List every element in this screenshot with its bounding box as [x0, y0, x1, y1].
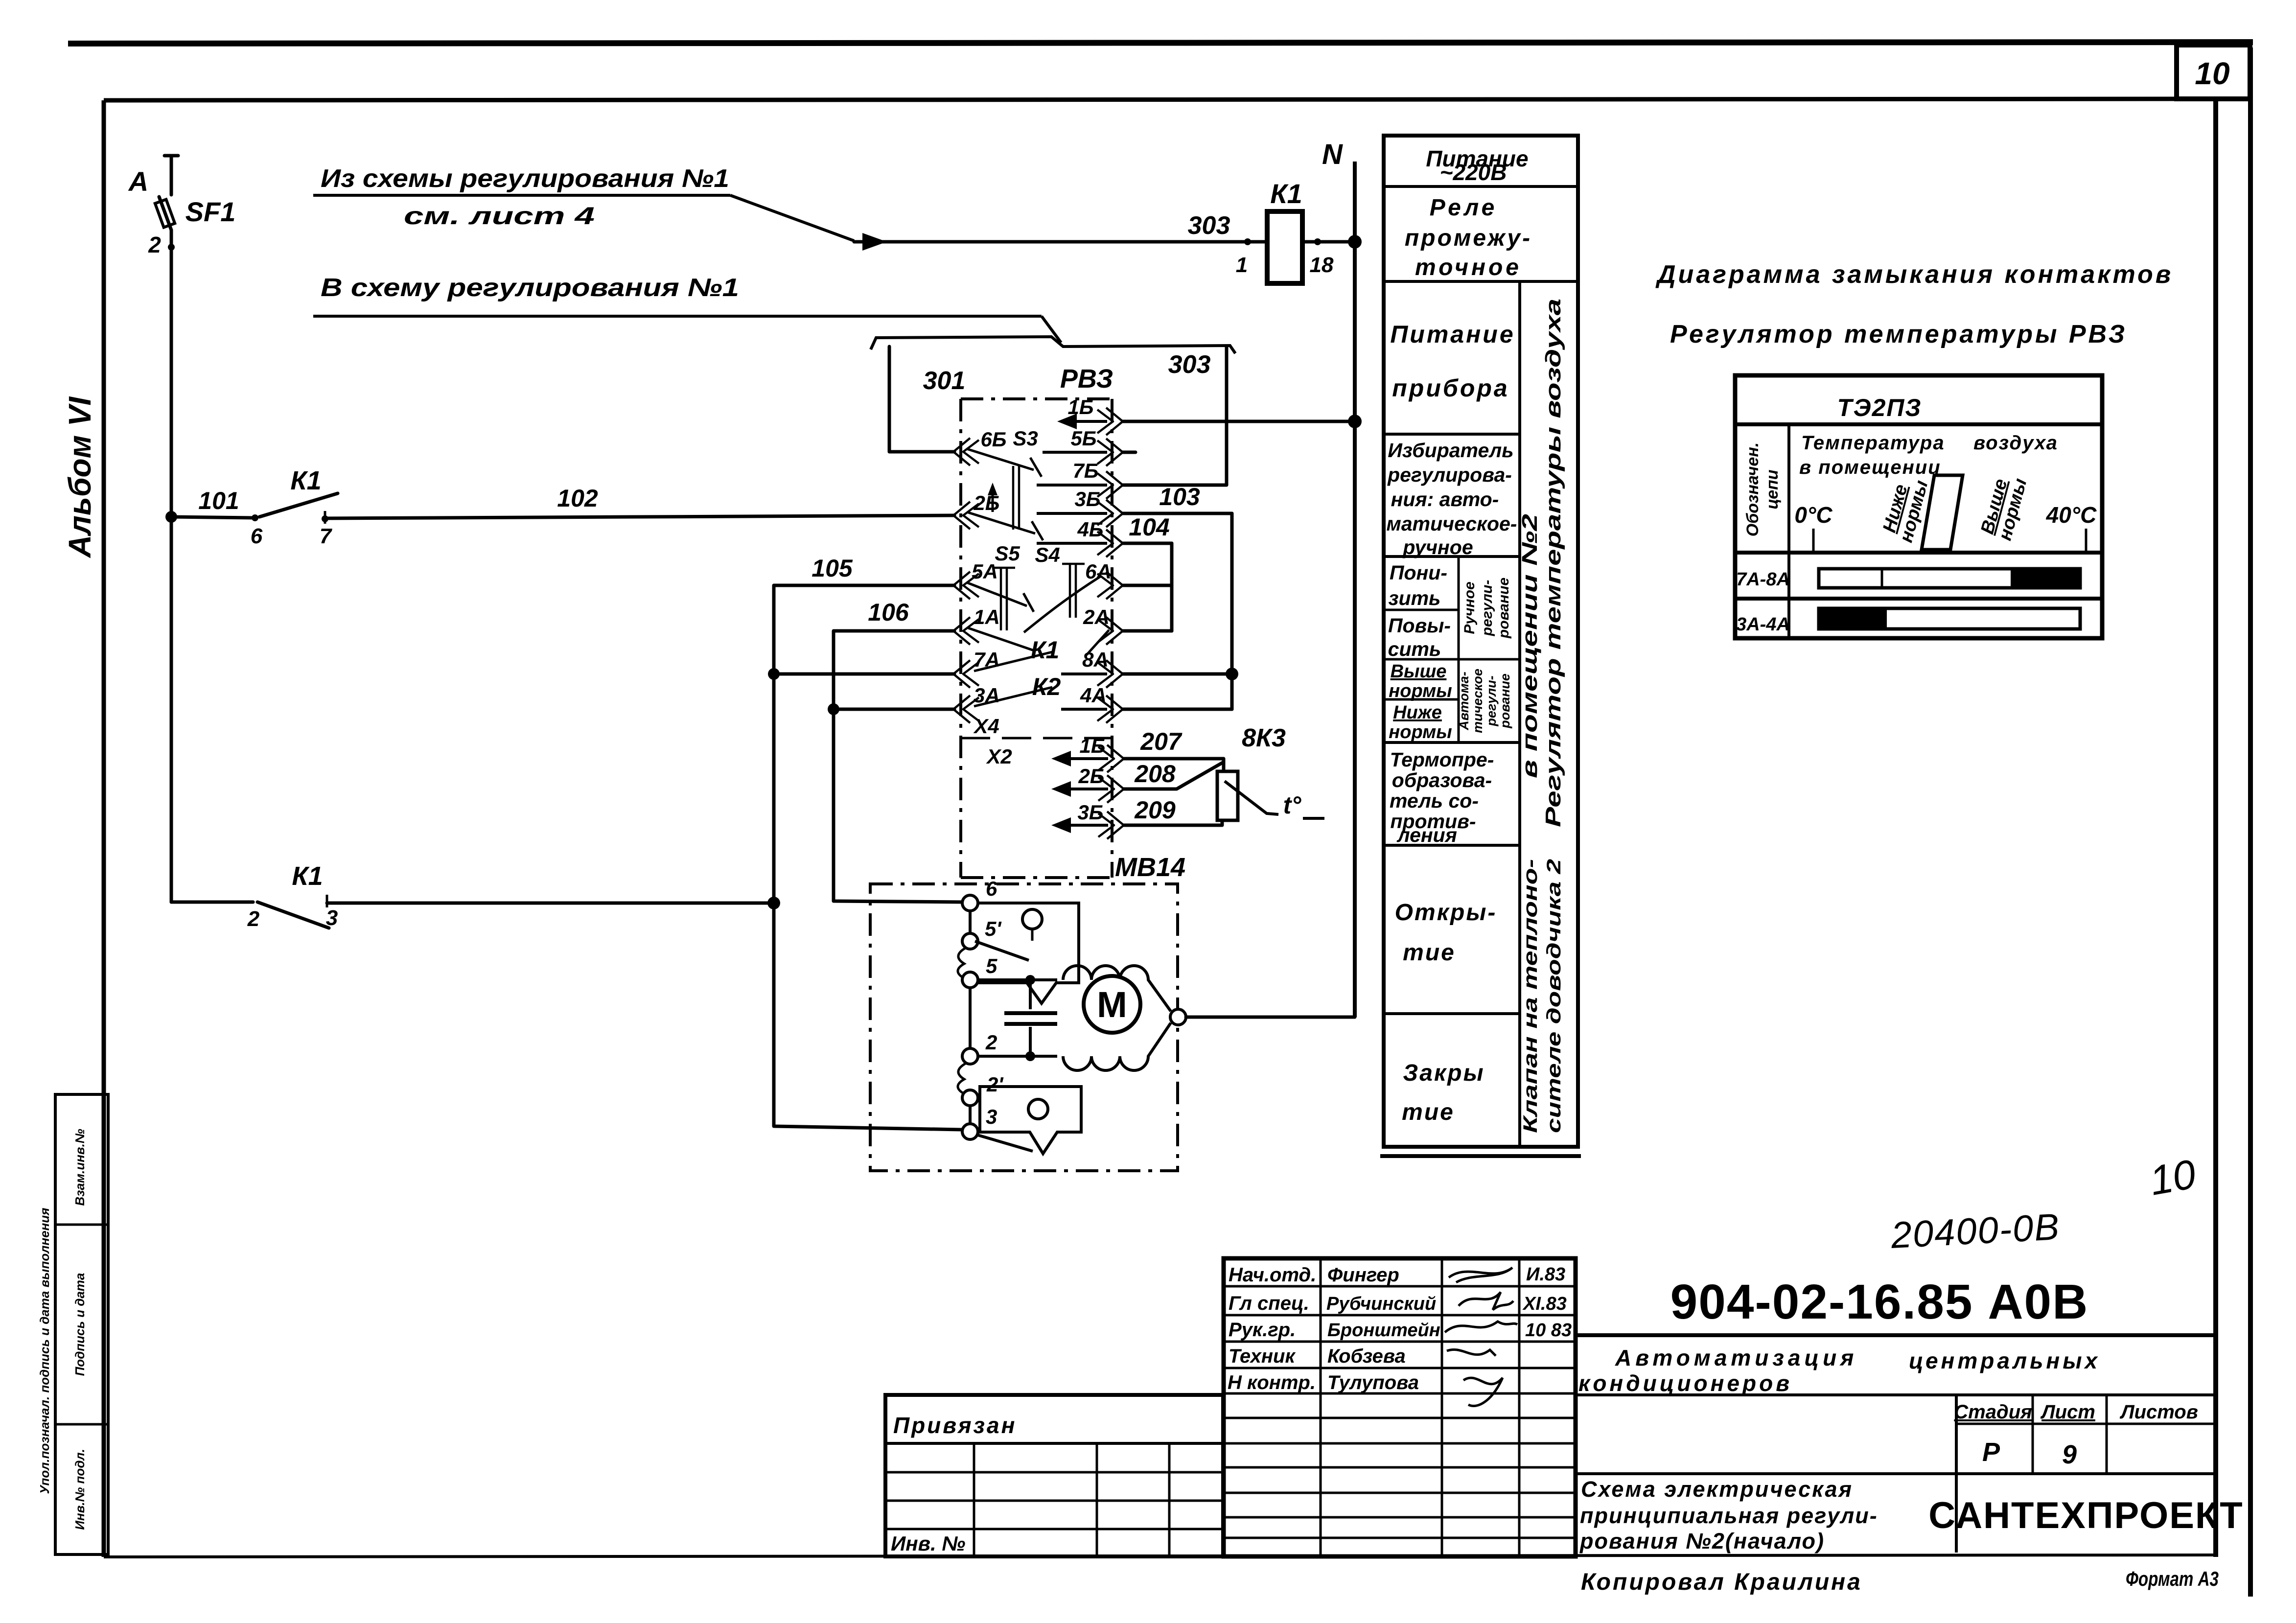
contact 3A (left): [953, 684, 1000, 723]
svg-text:5Б: 5Б: [1070, 427, 1096, 450]
svg-text:Пони-: Пони-: [1390, 561, 1447, 584]
junction N / K1 coil: [1348, 235, 1362, 249]
wire 208: [1124, 760, 1223, 789]
svg-text:303: 303: [1168, 350, 1211, 379]
wire 104: [1123, 513, 1172, 631]
svg-text:2: 2: [985, 1031, 997, 1054]
wire 103: [1123, 483, 1232, 709]
svg-text:904-02-16.85 А0В: 904-02-16.85 А0В: [1670, 1275, 2089, 1329]
bus N: [1322, 139, 1355, 1017]
svg-text:А: А: [128, 166, 148, 197]
svg-text:207: 207: [1140, 728, 1183, 755]
contact K1 pins 2-3 (lower branch): [171, 861, 338, 931]
svg-text:К1: К1: [292, 861, 323, 891]
svg-text:2А: 2А: [1083, 605, 1110, 628]
contact 2B (left): [953, 483, 1000, 529]
svg-text:Автома-: Автома-: [1457, 672, 1471, 731]
svg-text:рование: рование: [1496, 578, 1512, 639]
contact K1 blade (7A-8A): [974, 636, 1059, 671]
contact 3A-4A closure bar: [1818, 607, 2080, 630]
svg-text:Гл спец.: Гл спец.: [1229, 1293, 1309, 1314]
svg-text:ТЭ2ПЗ: ТЭ2ПЗ: [1837, 394, 1922, 421]
svg-text:4А: 4А: [1080, 684, 1107, 707]
svg-text:~220В: ~220В: [1440, 160, 1507, 185]
svg-text:Кобзева: Кобзева: [1327, 1345, 1406, 1367]
diagram title: [1655, 260, 2173, 348]
svg-text:5: 5: [986, 954, 997, 977]
svg-text:В схему регулирования №1: В схему регулирования №1: [321, 274, 739, 302]
node A (phase): [128, 166, 148, 197]
contact K2 blade (3A-4A): [974, 673, 1061, 706]
wire 209: [1124, 796, 1222, 825]
title block drawing title: [1579, 1477, 1878, 1553]
svg-text:регули-: регули-: [1484, 675, 1499, 726]
svg-text:Термопре-: Термопре-: [1390, 748, 1494, 771]
svg-text:сителе доводчика 2: сителе доводчика 2: [1543, 859, 1565, 1133]
junction bus A / wire 101: [165, 511, 177, 523]
sheet top rule: [68, 42, 2253, 44]
title block project name: [1576, 1345, 2216, 1396]
svg-text:Подпись и дата: Подпись и дата: [72, 1273, 87, 1376]
svg-text:К1: К1: [1031, 636, 1060, 664]
contact K1 pins 6-7: [251, 466, 338, 548]
function table rotated column: valve: [1520, 859, 1565, 1133]
resistance thermometer 8K3: [1217, 724, 1286, 820]
wire 105 lower run to valve terminal 3: [774, 903, 961, 1130]
junction wire105/K1 branch: [767, 897, 780, 909]
svg-text:301: 301: [923, 367, 966, 395]
svg-text:регулирова-: регулирова-: [1387, 464, 1512, 486]
svg-text:ния: авто-: ния: авто-: [1391, 488, 1499, 510]
svg-text:20400-0В: 20400-0В: [1889, 1206, 2061, 1256]
svg-text:МВ14: МВ14: [1115, 853, 1185, 882]
svg-text:Фингер: Фингер: [1327, 1264, 1399, 1286]
svg-text:Повы-: Повы-: [1388, 614, 1451, 637]
svg-text:Ручное: Ручное: [1461, 581, 1478, 634]
svg-text:1: 1: [1236, 253, 1248, 277]
svg-text:САНТЕХПРОЕКТ: САНТЕХПРОЕКТ: [1928, 1495, 2243, 1536]
svg-text:сить: сить: [1388, 638, 1441, 660]
circuit breaker SF1: [148, 156, 235, 257]
svg-text:К1: К1: [290, 466, 321, 495]
svg-text:Альбом VI: Альбом VI: [62, 396, 97, 559]
svg-text:Из схемы регулирования №1: Из схемы регулирования №1: [321, 164, 729, 193]
wire 301: [889, 347, 965, 452]
wire 101: [171, 487, 253, 518]
svg-text:см. лист 4: см. лист 4: [404, 202, 595, 230]
limit switch box upper: [975, 903, 1079, 1003]
svg-text:3: 3: [986, 1105, 997, 1128]
switch S4: [1024, 543, 1109, 655]
svg-text:303: 303: [1188, 211, 1230, 240]
svg-text:Откры-: Откры-: [1395, 900, 1497, 926]
limit switch box lower: [976, 1087, 1081, 1154]
wire 102: [325, 485, 954, 518]
svg-text:S4: S4: [1035, 543, 1060, 566]
contact 5A (left): [953, 560, 998, 599]
contact 4A (right): [1061, 684, 1123, 723]
terminal 6 of MV14: [962, 877, 997, 911]
contact closure diagram table TE2P3: [1735, 375, 2102, 638]
svg-text:Упол.позначал. подпись и дата: Упол.позначал. подпись и дата выполнения: [37, 1208, 52, 1494]
svg-text:3Б: 3Б: [1074, 487, 1100, 510]
function table: [1380, 136, 1581, 1156]
svg-text:РВЗ: РВЗ: [1060, 364, 1113, 394]
note: from scheme No.1: [313, 164, 854, 241]
svg-text:103: 103: [1159, 483, 1200, 510]
svg-text:Техник: Техник: [1229, 1345, 1296, 1367]
svg-text:2: 2: [148, 232, 161, 257]
valve actuator MV14 boundary (dash-dot): [870, 884, 1178, 1171]
svg-text:Рук.гр.: Рук.гр.: [1229, 1319, 1296, 1341]
motor M: [1084, 976, 1140, 1033]
sheet number box 10: [2177, 45, 2250, 99]
note: to scheme No.1: [313, 274, 1061, 343]
svg-text:101: 101: [198, 487, 239, 514]
relay coil K1: [1267, 178, 1302, 283]
svg-text:Клапан на теплоно-: Клапан на теплоно-: [1520, 859, 1541, 1133]
handwritten sheet number: [2146, 1151, 2200, 1204]
valve actuator MV14 label: [1115, 853, 1185, 882]
svg-text:Стадия: Стадия: [1954, 1401, 2032, 1423]
svg-text:кондиционеров: кондиционеров: [1578, 1370, 1792, 1396]
wire 3A tap: [834, 708, 954, 711]
svg-text:Тулупова: Тулупова: [1327, 1372, 1419, 1393]
svg-text:3: 3: [326, 906, 338, 930]
wire from contact K1-3 to junction: [327, 902, 774, 905]
terminal 5 of MV14: [962, 954, 997, 988]
svg-text:Нач.отд.: Нач.отд.: [1229, 1264, 1316, 1286]
svg-text:4Б: 4Б: [1077, 518, 1103, 541]
copied by: [1581, 1567, 2219, 1595]
function table rotated column: temperature controller: [1518, 299, 1565, 827]
svg-text:10: 10: [2195, 56, 2229, 91]
svg-text:Инв.№ подл.: Инв.№ подл.: [72, 1449, 87, 1530]
contact 6A (right): [1085, 560, 1123, 599]
svg-text:6: 6: [251, 524, 263, 548]
function table texts column 1: [1387, 146, 1532, 1125]
svg-text:209: 209: [1134, 796, 1176, 824]
wire 105: [774, 555, 954, 903]
MV14 terminal column wire: [969, 911, 972, 1124]
svg-text:Регулятор температуры Р: Регулятор температуры РВЗ: [1670, 320, 2127, 348]
svg-text:ления: ления: [1396, 824, 1457, 846]
svg-text:К1: К1: [1270, 178, 1302, 209]
contact 7B (right): [1037, 459, 1123, 499]
jumper arc 5'-5: [958, 948, 966, 979]
wire 8A to 103: [1123, 672, 1232, 676]
svg-text:XI.83: XI.83: [1522, 1294, 1567, 1314]
svg-text:тель со-: тель со-: [1390, 789, 1479, 812]
svg-text:зить: зить: [1389, 587, 1441, 609]
terminal 5' of MV14: [962, 917, 1002, 949]
svg-text:9: 9: [2062, 1440, 2077, 1469]
switch S3: [967, 427, 1043, 540]
terminal 3 of MV14: [962, 1105, 997, 1139]
right page border double line: [2216, 47, 2250, 1597]
svg-text:точное: точное: [1415, 255, 1522, 280]
svg-text:5А: 5А: [972, 560, 998, 583]
svg-text:Копировал Краилина: Копировал Краилина: [1581, 1569, 1862, 1595]
svg-text:1Б: 1Б: [1079, 734, 1105, 757]
svg-text:Бронштейн: Бронштейн: [1327, 1320, 1440, 1341]
contact 7A-8A closure bar: [1819, 568, 2080, 589]
svg-text:106: 106: [868, 599, 909, 626]
svg-text:Лист: Лист: [2040, 1401, 2095, 1423]
svg-text:тическое: тическое: [1470, 669, 1485, 733]
svg-text:Диаграмма замыкания контак: Диаграмма замыкания контактов: [1655, 260, 2173, 289]
motor M winding upper: [1063, 966, 1171, 1011]
svg-text:104: 104: [1129, 513, 1169, 541]
wire terminal2 to motor winding: [978, 1055, 1057, 1058]
wire 303 vertical to contact 7B: [1123, 347, 1227, 485]
svg-text:105: 105: [812, 555, 853, 582]
svg-text:Избиратель: Избиратель: [1388, 439, 1513, 462]
svg-text:0°С: 0°С: [1794, 502, 1832, 528]
svg-text:6А: 6А: [1085, 560, 1112, 583]
motor output terminal: [1170, 1009, 1186, 1025]
wire 6A to 104: [1123, 584, 1172, 587]
svg-text:208: 208: [1134, 760, 1176, 788]
svg-text:2': 2': [986, 1073, 1004, 1096]
svg-text:регули-: регули-: [1479, 580, 1495, 637]
svg-text:1Б: 1Б: [1067, 395, 1093, 418]
switch S5: [967, 542, 1035, 651]
bus A vertical wire: [170, 230, 173, 902]
handwritten archive number: [1889, 1206, 2061, 1256]
svg-text:принципиальная регули-: принципиальная регули-: [1580, 1503, 1878, 1528]
title block organization: [1928, 1495, 2243, 1536]
svg-text:10: 10: [2146, 1151, 2200, 1204]
svg-text:нормы: нормы: [1389, 722, 1452, 742]
title block document number: [1576, 1275, 2216, 1335]
svg-text:10 83: 10 83: [1525, 1320, 1572, 1341]
svg-text:Привязан: Привязан: [893, 1413, 1017, 1438]
svg-text:Питание: Питание: [1390, 321, 1515, 348]
wire motor to bus N: [1186, 1016, 1355, 1019]
svg-text:Автоматизация: Автоматизация: [1615, 1345, 1857, 1370]
svg-text:Закры: Закры: [1403, 1060, 1484, 1086]
contact 2B lower (to 208): [1051, 765, 1124, 803]
svg-text:Х4: Х4: [973, 715, 999, 738]
svg-text:40°С: 40°С: [2046, 502, 2097, 528]
svg-text:7Б: 7Б: [1072, 459, 1098, 482]
svg-text:Температура: Температура: [1801, 432, 1945, 454]
svg-text:3Б: 3Б: [1077, 801, 1103, 824]
svg-text:Н контр.: Н контр.: [1228, 1372, 1316, 1393]
terminal 2 of MV14: [962, 1031, 997, 1064]
contact 1B lower (to 207): [1051, 734, 1124, 772]
svg-text:рование: рование: [1498, 673, 1512, 729]
junction capacitor bottom: [1025, 1051, 1035, 1061]
svg-text:Р: Р: [1982, 1438, 2000, 1467]
svg-text:тие: тие: [1403, 940, 1456, 966]
wire 1B to bus N: [1123, 420, 1355, 423]
junction 106/3A: [828, 703, 839, 715]
contact 8A (right): [1061, 648, 1123, 688]
svg-text:Листов: Листов: [2119, 1401, 2198, 1423]
svg-text:6: 6: [986, 877, 997, 900]
svg-text:8К3: 8К3: [1242, 724, 1286, 752]
svg-text:промежу-: промежу-: [1405, 225, 1532, 251]
svg-text:1А: 1А: [974, 605, 1000, 628]
contact 3B lower (to 209): [1051, 801, 1124, 839]
svg-text:8А: 8А: [1082, 648, 1109, 671]
svg-text:Реле: Реле: [1430, 195, 1498, 221]
wire terminal5 to motor winding: [978, 978, 1057, 981]
svg-text:Регулятор температуры воздух: Регулятор температуры воздуха: [1541, 299, 1565, 827]
junction capacitor top: [1025, 975, 1035, 985]
contact 6B (left): [953, 428, 1007, 465]
svg-text:тие: тие: [1402, 1099, 1455, 1125]
svg-text:цепи: цепи: [1763, 469, 1782, 509]
jumper arc 2-2': [958, 1063, 966, 1095]
capacitor C: [1004, 980, 1057, 1056]
svg-text:Ниже: Ниже: [1393, 702, 1442, 723]
wire 7A tap: [774, 672, 954, 676]
svg-text:Взам.инв.№: Взам.инв.№: [72, 1129, 87, 1206]
svg-text:К2: К2: [1032, 673, 1061, 700]
svg-text:t°: t°: [1283, 791, 1302, 819]
svg-text:центральных: центральных: [1909, 1348, 2100, 1373]
svg-text:102: 102: [557, 485, 598, 512]
contact 5B (right): [1043, 427, 1136, 466]
svg-text:7А-8А: 7А-8А: [1736, 569, 1790, 590]
t° pointer of 8K3: [1225, 781, 1324, 819]
junction 105/7A: [768, 668, 780, 680]
svg-text:Формат А3: Формат А3: [2126, 1567, 2219, 1590]
wire 106: [834, 599, 961, 902]
album label: [62, 396, 97, 559]
instrument RV3 label: [1060, 364, 1113, 394]
junction 103/8A: [1226, 668, 1238, 680]
title block stage/sheet: [1576, 1395, 2216, 1553]
svg-text:М: М: [1097, 984, 1127, 1025]
left margin stamp boxes: [37, 1094, 108, 1554]
svg-text:18: 18: [1310, 253, 1334, 277]
contact 1B (right): [1057, 395, 1123, 435]
wire 4A to 103: [1123, 708, 1232, 711]
instrument RV3 boundary (dash-dot): [961, 399, 1112, 878]
terminal 2' of MV14: [962, 1073, 1004, 1106]
group bracket over wires 301,303: [871, 337, 1235, 353]
svg-text:7: 7: [320, 524, 333, 548]
wire 303 from scheme No.1 with arrow: [854, 211, 1267, 277]
svg-text:Рубчинский: Рубчинский: [1326, 1294, 1436, 1314]
svg-text:ручное: ручное: [1402, 536, 1473, 558]
svg-text:2: 2: [247, 907, 260, 931]
svg-text:нормы: нормы: [1389, 681, 1452, 701]
svg-text:S5: S5: [995, 542, 1020, 565]
svg-text:Инв. №: Инв. №: [891, 1532, 965, 1555]
svg-text:2Б: 2Б: [1078, 765, 1104, 788]
svg-text:3А-4А: 3А-4А: [1736, 614, 1790, 635]
svg-text:Х2: Х2: [986, 745, 1012, 768]
function table rotated sub-cells: [1457, 578, 1512, 733]
svg-text:в помещении: в помещении: [1799, 457, 1941, 478]
contact 4B (right): [1037, 518, 1123, 557]
svg-text:S3: S3: [1013, 427, 1038, 450]
contact 3B (right): [1037, 487, 1123, 527]
wire 207: [1124, 728, 1224, 771]
svg-text:прибора: прибора: [1392, 374, 1509, 402]
contact 2A (right): [1083, 605, 1123, 645]
svg-text:Схема электрическая: Схема электрическая: [1581, 1477, 1853, 1502]
contact 7A (left): [953, 648, 1000, 688]
wire 2A to 104: [1123, 629, 1172, 633]
svg-text:Выше: Выше: [1391, 661, 1447, 682]
wire coil K1 pin 18 to N: [1302, 238, 1355, 277]
title block name table: [1224, 1258, 1576, 1556]
svg-text:рования №2(начало): рования №2(начало): [1579, 1529, 1825, 1553]
svg-text:воздуха: воздуха: [1973, 432, 2058, 454]
svg-text:6Б: 6Б: [980, 428, 1006, 451]
linked-project table: [885, 1395, 1223, 1556]
svg-text:образова-: образова-: [1392, 769, 1492, 791]
svg-text:5': 5': [985, 917, 1002, 940]
contact 1A (left): [953, 605, 1000, 645]
svg-text:N: N: [1322, 139, 1343, 170]
svg-text:SF1: SF1: [186, 196, 236, 227]
svg-text:Обозначен.: Обозначен.: [1743, 442, 1762, 536]
svg-text:матическое-: матическое-: [1387, 512, 1517, 535]
connector X4/X2: [961, 715, 1112, 768]
svg-text:И.83: И.83: [1526, 1264, 1565, 1285]
junction N / 1B: [1348, 415, 1362, 428]
title block signatures: [1445, 1268, 1517, 1406]
svg-text:в помещении №2: в помещении №2: [1518, 513, 1542, 778]
motor M winding lower: [1063, 1023, 1171, 1070]
